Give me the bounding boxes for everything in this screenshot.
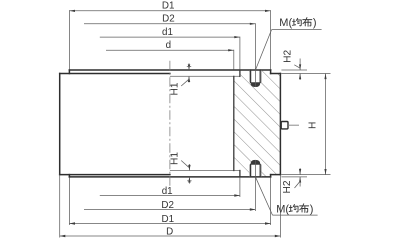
body outline: right step edge top [270, 70, 272, 74]
dimension D bottom [60, 235, 281, 237]
tapped hole M top: thread lines [248, 70, 250, 82]
body outline: right outer edge [279, 74, 281, 175]
dimension D2 top [84, 23, 255, 25]
extension line d1 right [239, 37, 241, 70]
svg-text:D2: D2 [162, 14, 175, 25]
H1 top leader [181, 79, 189, 86]
body outline: left outer edge [59, 74, 61, 175]
extension line D right bottom [279, 175, 281, 238]
extension line d1 right bottom [239, 177, 241, 197]
H2 top leader [294, 65, 300, 68]
extension line H2 top (lip) [281, 69, 307, 71]
svg-text:H: H [307, 122, 318, 129]
dimension H1 top arrows [188, 63, 190, 70]
extension line D2 / hole centerline bottom [254, 160, 256, 211]
body outline: lip left step edge [68, 70, 70, 74]
svg-text:H1: H1 [169, 152, 180, 165]
hanzi 布 top [303, 18, 312, 27]
dimension H [325, 74, 327, 175]
extension line D1 right bottom [270, 177, 272, 225]
tapped hole M bottom: walls [250, 165, 252, 177]
svg-text:d1: d1 [162, 27, 173, 38]
body outline: left step surface (D level, ends at centerline) [60, 73, 170, 75]
ring inner recess wall top (d1) [239, 70, 241, 76]
svg-text:M(: M( [279, 17, 292, 29]
svg-text:D: D [166, 227, 173, 238]
tapped hole M top: walls [250, 70, 252, 82]
svg-text:): ) [313, 17, 317, 29]
hanzi 布 bottom [300, 204, 309, 213]
svg-text:H2: H2 [283, 49, 294, 62]
dimension D1 bottom [69, 223, 270, 225]
ring inner wall (d) [233, 76, 235, 170]
extension line D1 left bottom [68, 177, 70, 225]
body outline: right step edge bottom [270, 175, 272, 177]
dimension H2 top arrows [299, 59, 301, 71]
extension line H bottom [281, 174, 330, 176]
cable stub [288, 124, 299, 126]
dimension H1 bottom arrows [188, 164, 190, 171]
svg-text:D1: D1 [162, 214, 175, 225]
body outline: lip left bottom step edge [68, 175, 70, 177]
svg-text:): ) [310, 203, 314, 215]
extension line H2 bottom (lip) [281, 176, 307, 178]
body outline: right step surface bottom [271, 174, 281, 176]
web top surface (visible edge) [170, 75, 240, 77]
hanzi 均 top [292, 18, 301, 25]
extension line d right [233, 50, 235, 70]
tapped hole M bottom: thread lines [248, 165, 250, 177]
svg-text:H1: H1 [169, 82, 180, 95]
M callout bottom leader [256, 177, 273, 215]
centerline (axis) [169, 61, 171, 187]
tapped hole M top: drill bottom [251, 82, 261, 87]
H2 bottom leader [295, 181, 301, 188]
svg-text:d1: d1 [162, 186, 173, 197]
svg-text:d: d [166, 40, 171, 51]
svg-text:M(: M( [276, 203, 289, 215]
ring inner recess wall bottom (d1) [239, 171, 241, 177]
body outline: lip bottom surface [69, 176, 270, 178]
body outline: right step surface top [271, 73, 281, 75]
dimension d1 top [100, 36, 240, 38]
extension line D1 right [270, 10, 272, 69]
extension line D1 left [68, 10, 70, 69]
tapped hole M bottom: drill top [251, 160, 261, 165]
H1 bottom leader [181, 161, 189, 168]
hatched ring cross-section [234, 70, 281, 177]
extension line D2 / hole centerline top [254, 23, 256, 87]
body outline: lip top surface [69, 69, 270, 71]
svg-text:D1: D1 [162, 1, 175, 12]
hanzi 均 bottom [289, 205, 298, 212]
cable connector bump [281, 122, 288, 129]
extension line H top [281, 73, 330, 75]
M callout top leader [256, 30, 272, 70]
dimension D1 top [69, 10, 270, 12]
dimension d top [106, 49, 234, 51]
extension line D left bottom [59, 175, 61, 238]
svg-text:H2: H2 [282, 180, 293, 193]
web bottom surface (visible edge) [170, 170, 240, 172]
dimension D2 bottom [84, 209, 255, 211]
body outline: bottom step surface (D level, ends at centerline) [60, 174, 170, 176]
svg-text:D2: D2 [161, 200, 174, 211]
dimension H2 bottom arrows [299, 168, 301, 175]
dimension d1 bottom [100, 195, 240, 197]
